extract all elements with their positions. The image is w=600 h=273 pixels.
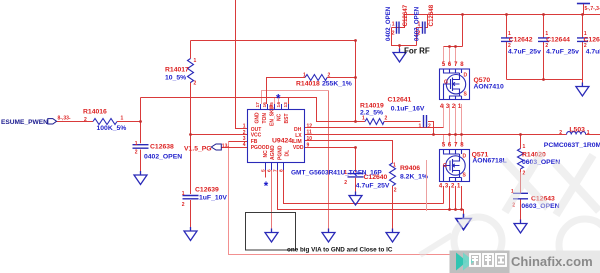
svg-text:5: 5: [442, 62, 446, 68]
svg-text:1: 1: [457, 184, 461, 190]
svg-text:1: 1: [303, 73, 306, 79]
svg-text:2: 2: [559, 130, 562, 136]
svg-text:S: S: [463, 173, 467, 179]
svg-text:2: 2: [584, 43, 587, 49]
svg-text:4: 4: [243, 142, 246, 148]
svg-text:7: 7: [273, 169, 279, 172]
svg-text:2: 2: [84, 117, 87, 123]
svg-text:2: 2: [182, 202, 185, 208]
svg-text:0402_OPEN: 0402_OPEN: [144, 154, 182, 161]
svg-text:D: D: [463, 154, 467, 160]
svg-text:C12648: C12648: [428, 4, 435, 26]
svg-text:1: 1: [523, 144, 526, 150]
svg-text:2: 2: [508, 43, 511, 49]
svg-text:R14016: R14016: [83, 109, 107, 116]
svg-text:7: 7: [454, 62, 458, 68]
svg-text:1: 1: [194, 58, 197, 64]
svg-text:1: 1: [584, 31, 587, 37]
svg-text:4.7uF: 4.7uF: [586, 49, 600, 56]
svg-text:5: 5: [442, 143, 446, 149]
svg-text:9: 9: [307, 143, 310, 149]
svg-text:1: 1: [419, 124, 422, 130]
svg-text:1: 1: [393, 163, 396, 169]
svg-text:5: 5: [261, 169, 267, 172]
svg-text:C12638: C12638: [150, 144, 174, 151]
svg-text:13-: 13-: [222, 144, 230, 150]
svg-text:1: 1: [182, 191, 185, 197]
svg-text:2: 2: [418, 31, 421, 37]
svg-text:4.7uF_25V: 4.7uF_25V: [356, 183, 390, 190]
svg-text:For RF: For RF: [404, 47, 430, 56]
svg-text:15: 15: [269, 102, 275, 108]
svg-text:1: 1: [121, 116, 124, 122]
svg-text:V1.5_PG: V1.5_PG: [184, 146, 212, 153]
svg-text:D: D: [464, 73, 468, 79]
svg-text:1: 1: [587, 130, 590, 136]
svg-text:16: 16: [262, 102, 268, 108]
svg-text:NC: NC: [277, 113, 283, 121]
svg-text:1: 1: [362, 116, 365, 122]
svg-text:255K_1%: 255K_1%: [322, 81, 352, 88]
svg-text:DL: DL: [284, 150, 290, 157]
svg-text:2: 2: [328, 73, 331, 79]
svg-text:6: 6: [267, 169, 273, 172]
svg-text:NC: NC: [263, 150, 269, 158]
svg-text:2: 2: [194, 81, 197, 87]
svg-text:1: 1: [243, 124, 246, 130]
svg-text:*: *: [264, 181, 269, 193]
svg-text:C12642: C12642: [509, 37, 533, 44]
svg-text:AON7410: AON7410: [474, 84, 504, 91]
svg-text:0.1uF_16V: 0.1uF_16V: [391, 106, 425, 113]
svg-text:ESUME_PWEN: ESUME_PWEN: [1, 119, 48, 126]
svg-text:U9424: U9424: [272, 138, 292, 145]
svg-text:1: 1: [545, 31, 548, 37]
svg-text:2: 2: [344, 180, 347, 186]
svg-text:10_5%: 10_5%: [165, 75, 186, 82]
svg-text:6: 6: [448, 62, 452, 68]
svg-text:GND: GND: [254, 112, 260, 124]
svg-text:1: 1: [392, 22, 395, 28]
svg-text:7: 7: [454, 143, 458, 149]
svg-text:2: 2: [545, 43, 548, 49]
svg-text:14: 14: [276, 102, 282, 108]
svg-text:8: 8: [460, 62, 464, 68]
svg-text:2: 2: [428, 124, 431, 130]
svg-text:13: 13: [283, 102, 289, 108]
svg-text:VDD: VDD: [293, 145, 304, 151]
svg-text:G: G: [444, 79, 448, 85]
svg-text:10: 10: [307, 136, 313, 142]
svg-text:2: 2: [394, 188, 397, 194]
svg-text:R14019: R14019: [360, 103, 384, 110]
svg-text:1: 1: [418, 22, 421, 28]
svg-text:2: 2: [243, 130, 246, 136]
svg-text:1: 1: [344, 170, 347, 176]
svg-text:L503: L503: [569, 127, 585, 134]
svg-text:11: 11: [307, 130, 313, 136]
svg-text:1uF_10V: 1uF_10V: [199, 195, 227, 202]
svg-text:6: 6: [448, 143, 452, 149]
svg-text:PGOOD: PGOOD: [251, 145, 270, 151]
svg-text:C12644: C12644: [546, 37, 570, 44]
svg-text:4: 4: [439, 184, 443, 190]
svg-text:AGND: AGND: [270, 145, 276, 160]
svg-text:2: 2: [392, 31, 395, 37]
svg-text:C12647: C12647: [402, 4, 409, 26]
svg-text:C12641: C12641: [388, 97, 412, 104]
svg-text:4.7uF_25v: 4.7uF_25v: [546, 49, 579, 56]
svg-text:Chinafix.com: Chinafix.com: [511, 254, 593, 269]
svg-text:BST: BST: [284, 114, 290, 124]
svg-text:C12639: C12639: [195, 187, 219, 194]
svg-text:2: 2: [451, 184, 455, 190]
svg-text:R14018: R14018: [296, 81, 320, 88]
svg-text:100K_5%: 100K_5%: [97, 125, 127, 132]
svg-text:PCMC063T_1R0MNP: PCMC063T_1R0MNP: [544, 142, 600, 149]
svg-text:AON6718L: AON6718L: [472, 158, 506, 165]
svg-text:R9406: R9406: [400, 165, 420, 172]
svg-text:8.2K_1%: 8.2K_1%: [400, 174, 428, 181]
svg-text:1: 1: [508, 31, 511, 37]
svg-text:TON: TON: [262, 113, 268, 124]
svg-text:8: 8: [279, 169, 285, 172]
svg-text:S: S: [464, 92, 468, 98]
svg-text:R14017: R14017: [165, 67, 189, 74]
svg-text:VCC: VCC: [251, 133, 262, 139]
svg-text:2: 2: [135, 150, 138, 156]
svg-text:one big VIA to GND and Close t: one big VIA to GND and Close to IC: [287, 247, 393, 254]
svg-text:G: G: [443, 163, 447, 169]
svg-text:1: 1: [135, 141, 138, 147]
svg-text:17: 17: [255, 102, 261, 108]
svg-text:8-,33-: 8-,33-: [58, 115, 71, 121]
svg-text:3: 3: [445, 184, 449, 190]
svg-text:GMT_G5603R41U_TQFN_16P: GMT_G5603R41U_TQFN_16P: [291, 170, 382, 177]
svg-text:8: 8: [460, 143, 464, 149]
svg-text:FB: FB: [251, 139, 258, 145]
svg-text:5-,7-,3-: 5-,7-,3-: [585, 6, 600, 12]
svg-text:12: 12: [307, 123, 313, 129]
svg-text:2: 2: [385, 116, 388, 122]
svg-text:4.7uF_25v: 4.7uF_25v: [508, 49, 541, 56]
svg-text:PGND: PGND: [277, 145, 283, 160]
